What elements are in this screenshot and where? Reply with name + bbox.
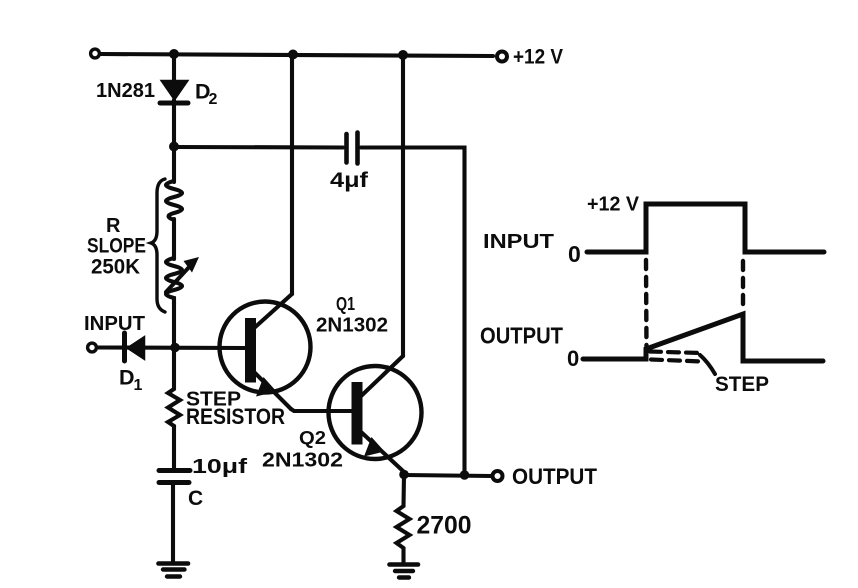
dashed timing line left	[644, 260, 649, 350]
transistor Q2	[329, 366, 422, 459]
resistor STEP	[168, 347, 180, 426]
wire output line	[404, 475, 492, 476]
wire Q1 emitter to Q2 base	[291, 409, 352, 411]
resistor R slope 250K (variable, upper coil)	[166, 181, 182, 220]
diode D1	[127, 337, 145, 360]
terminal +12V	[497, 52, 507, 62]
wire from second rail into slope resistor	[172, 147, 176, 182]
svg-text:1: 1	[134, 377, 143, 394]
wire D2 branch	[172, 54, 176, 81]
wire step resistor to capacitor C	[172, 426, 176, 468]
svg-text:STEP: STEP	[715, 373, 769, 396]
wire Q2 collector vertical	[401, 55, 405, 356]
svg-text:OUTPUT: OUTPUT	[480, 323, 564, 349]
svg-text:10μf: 10μf	[192, 456, 247, 478]
pointer to STEP	[700, 355, 715, 374]
svg-text:2: 2	[209, 91, 218, 108]
svg-text:RESISTOR: RESISTOR	[186, 404, 285, 429]
terminal OUTPUT	[493, 471, 503, 481]
resistor R slope 250K (lower coil)	[166, 258, 182, 304]
svg-text:Q2: Q2	[299, 428, 326, 448]
svg-text:INPUT: INPUT	[483, 231, 554, 253]
junction dot output node	[460, 470, 470, 480]
waveform input trace	[587, 204, 824, 252]
wire top +12V rail	[100, 54, 493, 56]
waveform output trace	[583, 314, 823, 361]
junction dot Q2 emitter node	[399, 470, 409, 480]
resistor 2700	[397, 475, 410, 562]
wire below slope resistor	[172, 303, 176, 347]
junction dot input node	[170, 343, 180, 353]
transistor Q1	[220, 302, 311, 393]
wire Q1 collector vertical	[290, 55, 294, 294]
svg-text:2N1302: 2N1302	[262, 450, 343, 472]
svg-text:2700: 2700	[417, 512, 472, 540]
dashed step line upper	[650, 352, 700, 354]
resistor R slope middle wire	[172, 219, 176, 259]
svg-text:4μf: 4μf	[330, 169, 369, 192]
svg-text:C: C	[188, 487, 203, 510]
terminal top-left	[91, 49, 100, 58]
brace for R slope	[151, 179, 165, 312]
wire second rail (left of 4uf cap)	[174, 145, 343, 150]
svg-text:+12 V: +12 V	[513, 46, 563, 69]
capacitor C2 4uf left plate	[344, 134, 349, 163]
ground below capacitor C	[159, 561, 189, 566]
svg-text:INPUT: INPUT	[84, 313, 145, 335]
wire input line	[97, 345, 246, 350]
junction dot Q2 collector at rail	[398, 50, 408, 60]
wiper arrow of slope resistor	[166, 265, 191, 292]
wire second rail (right of 4uf cap) to corner	[361, 148, 465, 476]
svg-text:2N1302: 2N1302	[316, 315, 388, 337]
svg-text:1N281: 1N281	[96, 80, 155, 102]
junction dot D2 branch / second rail	[169, 142, 179, 152]
junction dot top of D2 branch	[169, 49, 179, 59]
svg-text:250K: 250K	[91, 256, 140, 279]
dashed timing line right	[741, 261, 745, 310]
svg-text:0: 0	[567, 346, 579, 371]
svg-text:OUTPUT: OUTPUT	[512, 464, 597, 489]
svg-text:SLOPE: SLOPE	[87, 235, 146, 258]
capacitor C top plate	[159, 468, 190, 473]
wire capacitor C to ground	[171, 483, 175, 562]
svg-text:Q1: Q1	[336, 294, 355, 314]
diode D2	[161, 81, 188, 101]
terminal input	[88, 343, 97, 352]
ground below 2700	[390, 562, 419, 567]
capacitor C2 4uf right plate	[355, 133, 360, 164]
capacitor C bottom plate	[159, 480, 189, 485]
svg-text:D: D	[119, 366, 135, 390]
svg-text:+12 V: +12 V	[587, 194, 640, 216]
svg-text:0: 0	[568, 241, 581, 267]
junction dot Q1 collector at rail	[288, 50, 298, 60]
dashed step line lower	[651, 360, 702, 362]
